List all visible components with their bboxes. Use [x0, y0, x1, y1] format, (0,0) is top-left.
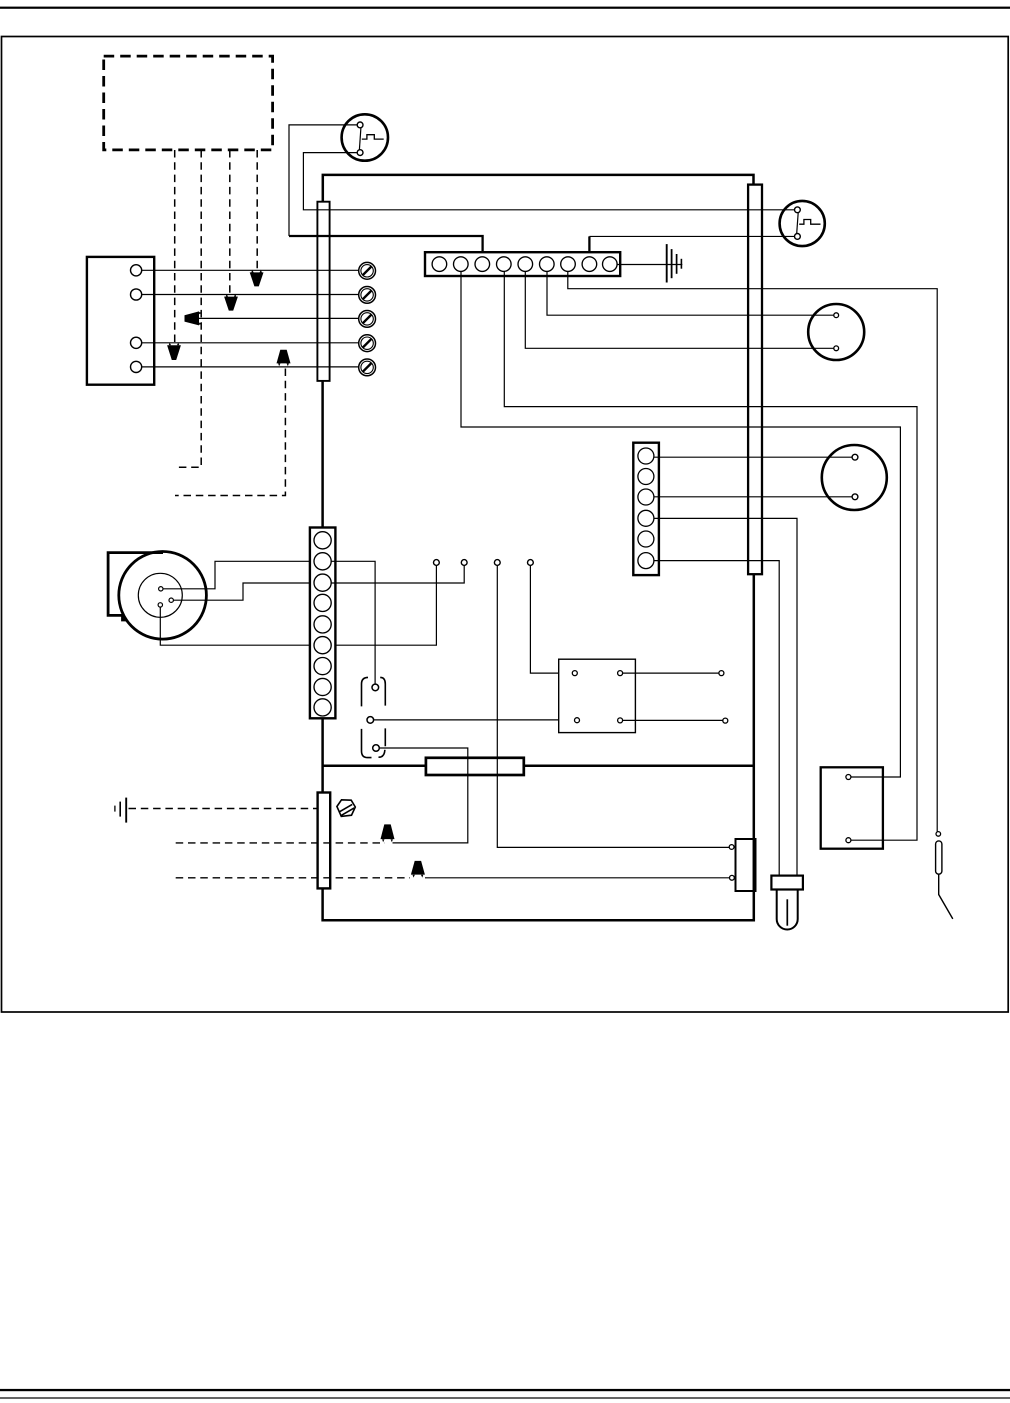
wire: 9-terminal strip to fuse: [321, 718, 324, 792]
wire: blower t3 through 9-strip c6 to terminal T1: [160, 563, 436, 646]
time switch S2: [780, 201, 825, 246]
wire: blower t2 to 9-strip c3: [171, 583, 322, 600]
bottom double rule: [0, 1389, 1010, 1391]
dashed ground wire (lower left): [129, 808, 318, 810]
connector pins: [372, 684, 379, 691]
vertical bus bar 1: [317, 202, 329, 381]
vertical bus bar 2: [748, 185, 762, 575]
screw terminal 2: [359, 287, 376, 304]
6-circle vertical terminal strip: [633, 443, 659, 575]
wire: switch 1 lower pin to switch 2 upper pin: [303, 153, 797, 210]
dashed wire from thermostat to wire R: [256, 150, 258, 270]
wire: relay lower-right pin to open terminal: [620, 719, 725, 721]
dashed wire from thermostat to wire W: [174, 150, 176, 342]
wire 1 (R): [142, 269, 367, 271]
connector plug upper half: [362, 677, 386, 706]
wire: strip c7 to flame sensor: [568, 264, 937, 831]
wire: field wire B to aux box lower pin: [425, 877, 732, 879]
screw terminal 4: [359, 335, 376, 352]
open terminal right of relay (upper): [719, 671, 724, 676]
screw terminal 1: [359, 262, 376, 279]
top rule: [0, 7, 1010, 9]
wire: horizontal bus through heater element: [323, 764, 754, 767]
wire 2 (Y): [142, 294, 367, 296]
wire: bar 1 to 9-terminal strip: [321, 381, 324, 528]
9-strip circles: [314, 532, 331, 716]
relay K1: [559, 659, 636, 732]
igniter plug: [771, 876, 803, 930]
wire: terminal T4 to relay upper-left pin: [530, 563, 574, 674]
low-voltage terminal box (left): [87, 257, 154, 385]
open terminals T1-T4: [434, 560, 440, 566]
6-strip circles: [638, 448, 654, 569]
open terminal right of relay (lower): [723, 718, 728, 723]
wire: 6-strip c3 to motor M2 lower pin: [646, 496, 855, 498]
motor M2 (blower motor): [822, 445, 887, 510]
wire: blower t1 to 9-strip c2: [161, 561, 323, 589]
earth ground symbol: [667, 244, 682, 282]
wire: terminal T3 to aux box upper pin: [497, 563, 732, 848]
wire: time switch 1 upper pin to junction: [289, 125, 358, 236]
wire: strip c5 to motor M1 lower pin: [525, 264, 836, 348]
wire: fuse to bottom bus and up to bar 2: [323, 574, 754, 920]
wire: relay upper-right pin to open terminal: [620, 672, 721, 674]
relay pins: [572, 671, 577, 676]
wire: strip c9 to earth ground: [610, 264, 683, 266]
arrow down on wire 1: [250, 270, 264, 287]
time switch S1: [342, 114, 388, 160]
wire 3: [198, 317, 368, 319]
wire: strip c4 to igniter control box lower pin: [504, 264, 917, 840]
screw terminal 5: [359, 359, 376, 376]
motor M1 (induced draft): [808, 304, 864, 360]
dashed wire from thermostat to wire Y: [229, 150, 231, 294]
terminal strip circles: [432, 257, 617, 272]
arrow down on wire 4: [167, 343, 181, 361]
flame sensor: [936, 832, 953, 919]
dashed wire from wire G, L-run to open end: [175, 369, 285, 496]
arrow down on wire 2: [224, 294, 238, 311]
wire: line to terminal strip circle 3: [289, 236, 483, 252]
wire 4 (W): [142, 342, 367, 344]
connector plug lower half: [362, 728, 386, 757]
9-circle horizontal terminal strip: [425, 252, 620, 276]
wire: terminal T2 to 9-strip c3: [323, 563, 465, 584]
fuse F1: [318, 793, 331, 889]
arrow left on wire 3: [185, 311, 202, 325]
terminal box pins: [131, 265, 142, 373]
arrow up on wire 5: [277, 350, 291, 366]
blower pins: [159, 587, 163, 591]
igniter control box: [821, 767, 883, 848]
wire: terminal strip circle 8 riser: [588, 236, 590, 252]
wire: strip circle 8 to switch 2 lower pin: [589, 235, 797, 237]
dashed wire from thermostat, L-run to open end: [177, 150, 201, 467]
arrow up on field wire B: [411, 861, 425, 878]
chassis ground symbol (left): [115, 798, 126, 823]
hex bolt symbol: [337, 800, 355, 817]
screw terminal 3: [359, 311, 376, 328]
wire: connector pin 2 to relay lower-left pin: [370, 719, 577, 721]
wire: connector pin 3 to field wire A: [376, 748, 468, 843]
wire: strip c2 to igniter control box upper pin: [461, 264, 900, 777]
wire 5 (G): [142, 366, 367, 368]
wire: 6-strip c6 to igniter left lead: [646, 561, 779, 876]
thermostat dashed box: [104, 56, 273, 150]
schematic border frame: [2, 37, 1009, 1013]
dashed field wire A (lower left): [176, 842, 385, 844]
arrow up on field wire A: [381, 824, 395, 842]
wire: 6-strip c4 to igniter right lead: [646, 518, 797, 875]
dashed field wire B (lower left): [176, 877, 410, 879]
wire: 9-strip c2 to connector pin 1: [323, 561, 376, 687]
aux box on bottom bus: [736, 839, 756, 891]
9-circle vertical terminal strip: [310, 528, 336, 719]
wire: top power bus: [323, 175, 754, 202]
wire: 6-strip c1 to motor M2 upper pin: [646, 456, 855, 458]
wire: strip c6 to motor M1 upper pin: [547, 264, 836, 315]
blower fan B1: [108, 552, 206, 640]
heater element (inline rectangle): [426, 758, 524, 775]
